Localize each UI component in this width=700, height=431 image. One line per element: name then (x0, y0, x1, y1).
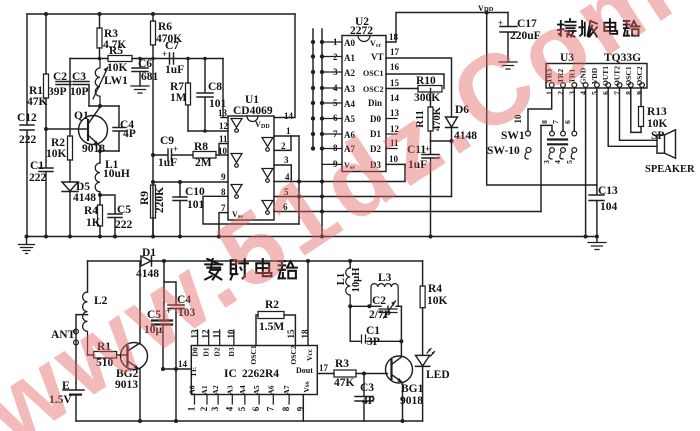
svg-text:4P: 4P (123, 128, 136, 140)
resistor R4 (99, 195, 101, 237)
svg-text:C6: C6 (138, 58, 152, 70)
svg-text:39P: 39P (48, 86, 67, 98)
transistor BG1 (386, 356, 413, 383)
IC 2262R4 (191, 346, 317, 395)
svg-text:14: 14 (284, 111, 294, 121)
svg-text:9018: 9018 (400, 395, 423, 407)
svg-text:R4: R4 (84, 205, 98, 217)
label transmitter title glyphs (205, 259, 222, 279)
svg-text:10K: 10K (427, 295, 448, 307)
svg-text:9: 9 (221, 172, 226, 182)
IC U1 CD4069 (228, 116, 274, 220)
node rail-R1 (44, 12, 48, 16)
svg-text:C3: C3 (72, 71, 86, 83)
switch SW1 contact (526, 131, 531, 136)
svg-text:10P: 10P (70, 86, 89, 98)
wire U3 pin1 to SW1 contact (528, 88, 552, 131)
svg-text:222: 222 (19, 134, 37, 146)
svg-text:R4: R4 (428, 283, 442, 295)
svg-text:10uH: 10uH (103, 168, 130, 180)
svg-text:9018: 9018 (82, 143, 105, 155)
wire U2 OSC2 stub (386, 88, 418, 90)
svg-text:9: 9 (635, 91, 644, 95)
wire D6 bottom junction (451, 128, 453, 197)
inverter gate 5 (262, 169, 273, 183)
svg-text:1M: 1M (170, 92, 187, 104)
wire pin1 to bus (274, 135, 299, 137)
svg-text:104: 104 (600, 201, 618, 213)
svg-text:A0: A0 (344, 38, 355, 48)
svg-text:R5: R5 (109, 45, 123, 57)
wire R6 column (152, 59, 154, 238)
svg-text:1.5M: 1.5M (259, 321, 284, 333)
svg-text:10µH: 10µH (351, 268, 362, 293)
svg-text:10: 10 (218, 146, 228, 156)
svg-text:10K: 10K (46, 148, 67, 160)
wire L2 branch (87, 261, 89, 292)
transistor BG2 (121, 343, 148, 370)
svg-text:Dout: Dout (296, 366, 313, 375)
wire pin13 branch (221, 59, 228, 118)
inverter gate 2 (231, 154, 242, 168)
svg-text:47K: 47K (334, 377, 355, 389)
wire U3 OUT1 to speaker (608, 88, 657, 146)
inductor L1 (99, 151, 101, 163)
wire L2 to R1 (88, 354, 94, 356)
svg-text:A3: A3 (225, 385, 234, 394)
diode D5 (62, 182, 78, 237)
wire C5 branch (163, 261, 165, 316)
ground bottom right (596, 237, 598, 243)
svg-text:10K: 10K (107, 62, 128, 74)
wire pin4 long line D3 (274, 164, 405, 181)
wire SW column1 top link (541, 125, 552, 131)
svg-text:17: 17 (390, 47, 400, 57)
wire U2 VT line (386, 58, 452, 117)
switch contacts col1 (550, 131, 555, 136)
wire U2 Vss to rail (321, 164, 323, 236)
svg-text:R9: R9 (139, 191, 151, 205)
wire pin3 link (274, 165, 291, 182)
svg-text:A1: A1 (344, 53, 355, 63)
svg-text:C3: C3 (360, 382, 374, 394)
node L1 bottom (98, 193, 102, 197)
capacitor C1 tx (362, 335, 366, 343)
wire pin14 to rail (274, 14, 295, 118)
svg-text:A5: A5 (252, 385, 261, 394)
inductor L1 tx (348, 259, 352, 263)
wire bottom rail (27, 236, 597, 238)
inverter gate 6 (262, 201, 273, 215)
svg-text:2272: 2272 (350, 25, 373, 37)
label receiver title glyphs (558, 19, 576, 37)
capacitor C11 (422, 141, 439, 237)
resistor R4 tx (422, 261, 424, 355)
wire TX bottom rail (76, 420, 423, 422)
wire U3 VDD down (596, 88, 598, 185)
inverter gate 4 (262, 138, 273, 152)
svg-text:A7: A7 (282, 385, 291, 394)
svg-text:IC: IC (224, 368, 237, 380)
inverter gate 1 (231, 119, 242, 133)
speaker SP (657, 135, 665, 153)
capacitor C8 (197, 59, 213, 132)
svg-text:4P: 4P (362, 395, 375, 407)
svg-text:A4: A4 (344, 99, 355, 109)
svg-text:C10: C10 (185, 186, 205, 198)
resistor R8 (193, 152, 216, 159)
svg-text:12: 12 (219, 121, 229, 131)
svg-text:Vss: Vss (302, 381, 311, 392)
svg-text:1uF: 1uF (158, 157, 177, 169)
ground C6 (131, 86, 149, 93)
wire left branch to C12 (26, 14, 28, 125)
svg-text:R13: R13 (647, 106, 667, 118)
svg-text:7: 7 (265, 406, 275, 411)
svg-text:R3: R3 (335, 358, 349, 370)
svg-text:6: 6 (563, 120, 572, 124)
resistor R2 (256, 315, 258, 346)
capacitor C5 tx (152, 321, 172, 325)
svg-text:A3: A3 (344, 84, 355, 94)
wire collector node line (89, 105, 119, 107)
wire code bus column B (321, 29, 323, 164)
wire emitter line (100, 150, 119, 152)
node rail-R6 (151, 12, 155, 16)
capacitor C9 (153, 149, 193, 161)
wire SW feed down (540, 125, 542, 211)
resistor R3 (99, 14, 101, 59)
wire TX top rail (88, 260, 423, 262)
wire U2 OSC1 elbow (386, 74, 444, 89)
svg-text:16: 16 (390, 62, 400, 72)
wire tank left leg down (350, 306, 360, 341)
svg-text:OSC2: OSC2 (289, 345, 298, 364)
switch contacts col3 (573, 88, 575, 131)
svg-text:D3: D3 (227, 347, 236, 356)
wire VDD feed down (487, 13, 597, 186)
wire C2 branch (69, 59, 71, 130)
svg-text:8: 8 (281, 406, 291, 411)
code link dots (311, 40, 315, 44)
svg-text:681: 681 (141, 71, 159, 83)
svg-text:A2: A2 (211, 385, 220, 394)
wire bus right (298, 136, 300, 224)
svg-text:C2: C2 (53, 71, 67, 83)
capacitor C2 (56, 82, 71, 85)
node D1 out (162, 259, 166, 263)
resistor R13 (640, 88, 642, 132)
node base line left (44, 127, 48, 131)
wire pin8 line (203, 196, 299, 224)
svg-text:2: 2 (199, 406, 209, 411)
wire U3 GND to rail (585, 88, 587, 237)
U2 address pin stubs (322, 42, 342, 164)
svg-text:220K: 220K (154, 187, 166, 213)
svg-text:SPEAKER: SPEAKER (645, 164, 695, 175)
U2 D0 D1 D2 stubs (386, 119, 397, 149)
wire pin11 elbow (219, 144, 228, 156)
svg-text:cc: cc (376, 43, 382, 49)
svg-text:13: 13 (218, 108, 228, 118)
svg-text:A6: A6 (266, 385, 275, 394)
svg-text:Vcc: Vcc (305, 348, 314, 361)
wire C4 branch (164, 282, 176, 305)
node rail-R3 (98, 12, 102, 16)
IC U2 2272 (342, 36, 386, 172)
battery E (63, 389, 84, 391)
diode D1 (141, 256, 152, 266)
svg-text:1uF: 1uF (165, 64, 184, 76)
wire U3 OSC1 to R13 (631, 88, 641, 132)
capacitor C7 (170, 53, 174, 64)
capacitor C13 (589, 185, 604, 237)
svg-text:222: 222 (115, 219, 133, 231)
wire pin5 long line to D6 (274, 196, 452, 198)
svg-text:A0: A0 (188, 385, 197, 394)
svg-text:LED: LED (426, 369, 450, 381)
switch SW-10 contact (526, 148, 531, 153)
svg-text:3P: 3P (367, 336, 380, 348)
svg-text:5: 5 (565, 160, 574, 164)
ground bottom left (26, 237, 28, 245)
svg-text:5: 5 (237, 406, 247, 411)
capacitor C4 tx (168, 305, 184, 421)
svg-text:C5: C5 (117, 204, 131, 216)
resistor R3 tx (334, 370, 356, 377)
capacitor C1 (39, 129, 53, 237)
svg-text:9: 9 (295, 406, 305, 411)
svg-text:C9: C9 (160, 135, 174, 147)
svg-text:18: 18 (389, 32, 399, 42)
svg-text:C1: C1 (30, 160, 44, 172)
wire Dout to R3 (317, 373, 334, 375)
svg-text:C13: C13 (598, 185, 618, 197)
svg-text:C7: C7 (165, 40, 179, 52)
svg-text:L1: L1 (336, 273, 347, 285)
wire top rail (27, 13, 295, 15)
IC bottom pin stubs (195, 395, 290, 405)
svg-text:15: 15 (286, 329, 296, 339)
inductor L3 (371, 284, 398, 307)
wire osc top line (70, 58, 223, 60)
wire IC Vss to rail (302, 395, 304, 422)
inverter gate 3 (231, 185, 242, 199)
svg-text:10K: 10K (647, 118, 668, 130)
svg-text:DD: DD (261, 124, 270, 130)
svg-text:C12: C12 (17, 112, 37, 124)
resistor R11 (430, 89, 432, 142)
svg-text:6: 6 (251, 406, 261, 411)
wire tank top (350, 305, 401, 307)
svg-text:OSC2: OSC2 (363, 85, 383, 94)
svg-text:2262R4: 2262R4 (242, 368, 279, 380)
svg-text:LW1: LW1 (104, 75, 128, 87)
resistor R2 (69, 129, 71, 182)
svg-text:A4: A4 (238, 385, 247, 394)
svg-text:17: 17 (319, 363, 329, 373)
svg-text:222: 222 (29, 172, 47, 184)
resistor R10 (418, 86, 442, 93)
svg-text:4: 4 (224, 406, 234, 411)
svg-text:2/7P: 2/7P (369, 309, 391, 321)
inductor L2 (83, 292, 88, 355)
wire pin9 line (153, 181, 228, 183)
transistor Q1 (79, 116, 108, 145)
resistor R1 (94, 352, 117, 359)
svg-text:101: 101 (187, 199, 205, 211)
wire Vcc stub (307, 261, 309, 346)
resistor R6 (152, 14, 154, 59)
svg-text:VT: VT (371, 52, 384, 62)
svg-text:1: 1 (187, 406, 197, 411)
svg-text:OSC1: OSC1 (249, 345, 258, 364)
svg-text:OSC1: OSC1 (363, 69, 383, 78)
wire U2 D3 elbow (386, 163, 405, 165)
capacitor C3 tx (355, 374, 373, 422)
switch contacts col2 (562, 88, 564, 131)
IC U3 TQ33G (546, 64, 647, 89)
svg-text:3: 3 (210, 406, 220, 411)
resistor R5 (108, 56, 132, 62)
capacitor C10 (173, 182, 187, 237)
svg-text:2M: 2M (195, 157, 212, 169)
svg-text:TE: TE (189, 367, 198, 377)
resistor R1 (45, 14, 47, 129)
svg-text:C2: C2 (372, 295, 386, 307)
capacitor C6 (132, 59, 148, 87)
svg-text:1K: 1K (86, 217, 101, 229)
wire pin7 to ground (219, 213, 228, 237)
inductor LW1 (95, 59, 100, 107)
svg-text:R6: R6 (158, 21, 172, 33)
svg-text:A2: A2 (344, 68, 355, 78)
svg-text:11: 11 (219, 134, 228, 144)
svg-text:D2: D2 (213, 347, 222, 356)
svg-text:1: 1 (286, 126, 291, 136)
svg-text:Q1: Q1 (74, 110, 89, 122)
resistor R9 (152, 218, 154, 237)
svg-text:2: 2 (281, 141, 286, 151)
LED (416, 355, 430, 366)
U3 pin circles (549, 83, 554, 88)
svg-text:A1: A1 (200, 385, 209, 394)
capacitor C5 (100, 195, 122, 237)
svg-text:C8: C8 (208, 81, 222, 93)
svg-text:BG1: BG1 (401, 383, 424, 395)
capacitor C2 variable (387, 306, 389, 309)
wire tank right leg (400, 306, 402, 356)
ground C17 (499, 62, 517, 69)
antenna ANT tap (76, 315, 88, 383)
capacitor C4 (113, 106, 125, 151)
svg-text:4: 4 (553, 160, 562, 164)
wire base line (46, 128, 88, 130)
wire pin6 long line to SW (274, 211, 541, 213)
resistor R7 (187, 59, 189, 132)
svg-text:R8: R8 (194, 141, 208, 153)
capacitor C3 (73, 82, 89, 107)
capacitor C12 (20, 125, 34, 237)
svg-text:7: 7 (551, 120, 560, 124)
wire LED to rail (422, 366, 424, 421)
wire pin12 line (188, 130, 228, 132)
wire R11 C11 link (431, 140, 452, 142)
capacitor C17 (500, 13, 517, 63)
wire U2 Vcc to VDD (386, 13, 508, 43)
IC top pin stubs (198, 330, 234, 346)
svg-text:8: 8 (221, 187, 226, 197)
svg-text:4148: 4148 (73, 192, 96, 204)
svg-text:47K: 47K (27, 96, 48, 108)
svg-text:CD4069: CD4069 (233, 105, 273, 117)
wire U3 OUT2 to speaker (620, 88, 658, 140)
wire pin2 link (274, 136, 291, 150)
wire code bus column A (312, 29, 314, 149)
wire TE line (163, 368, 191, 370)
diode D6 (446, 117, 458, 128)
svg-text:3: 3 (542, 160, 551, 164)
svg-text:L3: L3 (378, 272, 392, 284)
switch body bars (548, 140, 567, 145)
